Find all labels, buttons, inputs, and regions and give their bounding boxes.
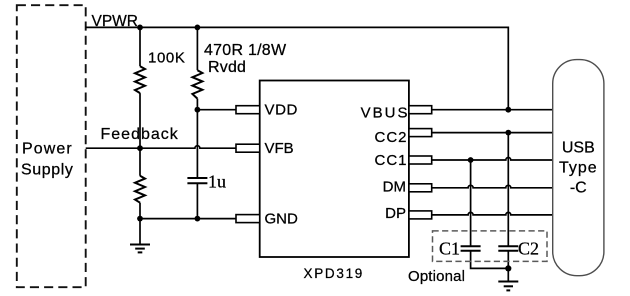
optional group box (433, 231, 548, 262)
node Feedback label (101, 126, 179, 143)
svg-text:DM: DM (383, 178, 406, 195)
svg-text:Supply: Supply (21, 162, 74, 179)
capacitor 1u (187, 172, 226, 192)
junction VDD node (195, 107, 201, 113)
pin DP (385, 205, 432, 222)
resistor 100K (135, 49, 185, 93)
ground symbol left (130, 219, 150, 253)
svg-text:VFB: VFB (265, 140, 294, 157)
svg-text:DP: DP (385, 205, 406, 222)
pin DM (383, 178, 432, 195)
pin CC2 (374, 129, 431, 146)
wire C2 bottom to ground junction (507, 251, 509, 269)
svg-text:1u: 1u (208, 172, 226, 192)
wire VPWR to 100K (139, 27, 141, 66)
svg-text:GND: GND (265, 211, 299, 228)
optional label (408, 268, 465, 285)
pin VFB (236, 140, 294, 157)
junction VPWR/Rvdd (195, 25, 201, 31)
capacitor C1 (439, 239, 481, 259)
svg-text:Rvdd: Rvdd (208, 59, 246, 76)
svg-text:VDD: VDD (265, 102, 298, 119)
resistor lower feedback divider (135, 176, 145, 203)
svg-text:Optional: Optional (408, 268, 465, 285)
junction VBUS/VPWR drop (505, 107, 511, 113)
power supply box (17, 5, 86, 287)
svg-text:C2: C2 (518, 239, 539, 259)
wire C1 drop from CC1 (470, 160, 472, 246)
wire 100K to feedback node (139, 93, 141, 148)
power supply label (21, 140, 74, 178)
wire CC1 to USB (hop over C2 drop) (432, 158, 553, 161)
pin CC1 (374, 152, 431, 169)
svg-text:-C: -C (570, 180, 587, 197)
IC U1 XPD319 body (260, 81, 409, 282)
wire feedback (hops over VDD vertical) (86, 146, 236, 149)
USB Type-C connector (553, 60, 604, 276)
svg-text:USB: USB (562, 140, 595, 157)
wire feedback to lower resistor (139, 148, 141, 176)
wire VPWR top rail (86, 27, 509, 109)
svg-text:CC2: CC2 (374, 129, 407, 146)
junction VPWR/100K (137, 25, 143, 31)
svg-text:Feedback: Feedback (101, 126, 179, 143)
wire VDD node to capacitor 1u (196, 110, 198, 178)
junction CC1/C1 (468, 157, 474, 163)
pin VBUS (361, 105, 432, 122)
resistor Rvdd 470R 1/8W (192, 42, 287, 99)
junction ground rail/capacitor (195, 216, 201, 222)
wire Rvdd to VDD node (196, 99, 198, 110)
pin VDD (236, 102, 298, 119)
svg-text:C1: C1 (439, 239, 460, 259)
svg-text:VBUS: VBUS (361, 105, 410, 122)
wire C1 bottom to ground junction (471, 251, 509, 269)
pin GND (236, 211, 298, 228)
svg-text:Power: Power (22, 140, 73, 157)
wire DM to USB (hops over C1 and C2 drops) (432, 185, 553, 188)
junction CC2/C2 (505, 130, 511, 136)
wire C2 drop from CC2 (507, 133, 509, 247)
capacitor C2 (498, 239, 539, 259)
wire CC2 to USB (432, 132, 553, 134)
svg-text:100K: 100K (148, 49, 185, 66)
svg-text:Type: Type (559, 160, 598, 177)
node VPWR label (92, 13, 139, 30)
wire VDD node to VDD pin (197, 109, 236, 111)
wire DP to USB (hops over C1 and C2 drops) (432, 212, 553, 215)
ground symbol right (498, 268, 518, 290)
wire lower resistor to ground rail (139, 203, 141, 219)
wire VBUS to USB (432, 109, 553, 111)
wire capacitor 1u to ground rail (196, 183, 198, 218)
svg-text:VPWR: VPWR (92, 13, 139, 30)
svg-text:470R 1/8W: 470R 1/8W (204, 42, 287, 59)
wire VPWR to Rvdd (196, 27, 198, 70)
junction C1/C2 ground (505, 265, 511, 271)
svg-text:XPD319: XPD319 (304, 266, 364, 281)
svg-text:CC1: CC1 (374, 152, 407, 169)
junction feedback/100K (137, 145, 143, 151)
wire ground rail to GND pin (140, 218, 236, 220)
junction ground rail/resistor (137, 216, 143, 222)
